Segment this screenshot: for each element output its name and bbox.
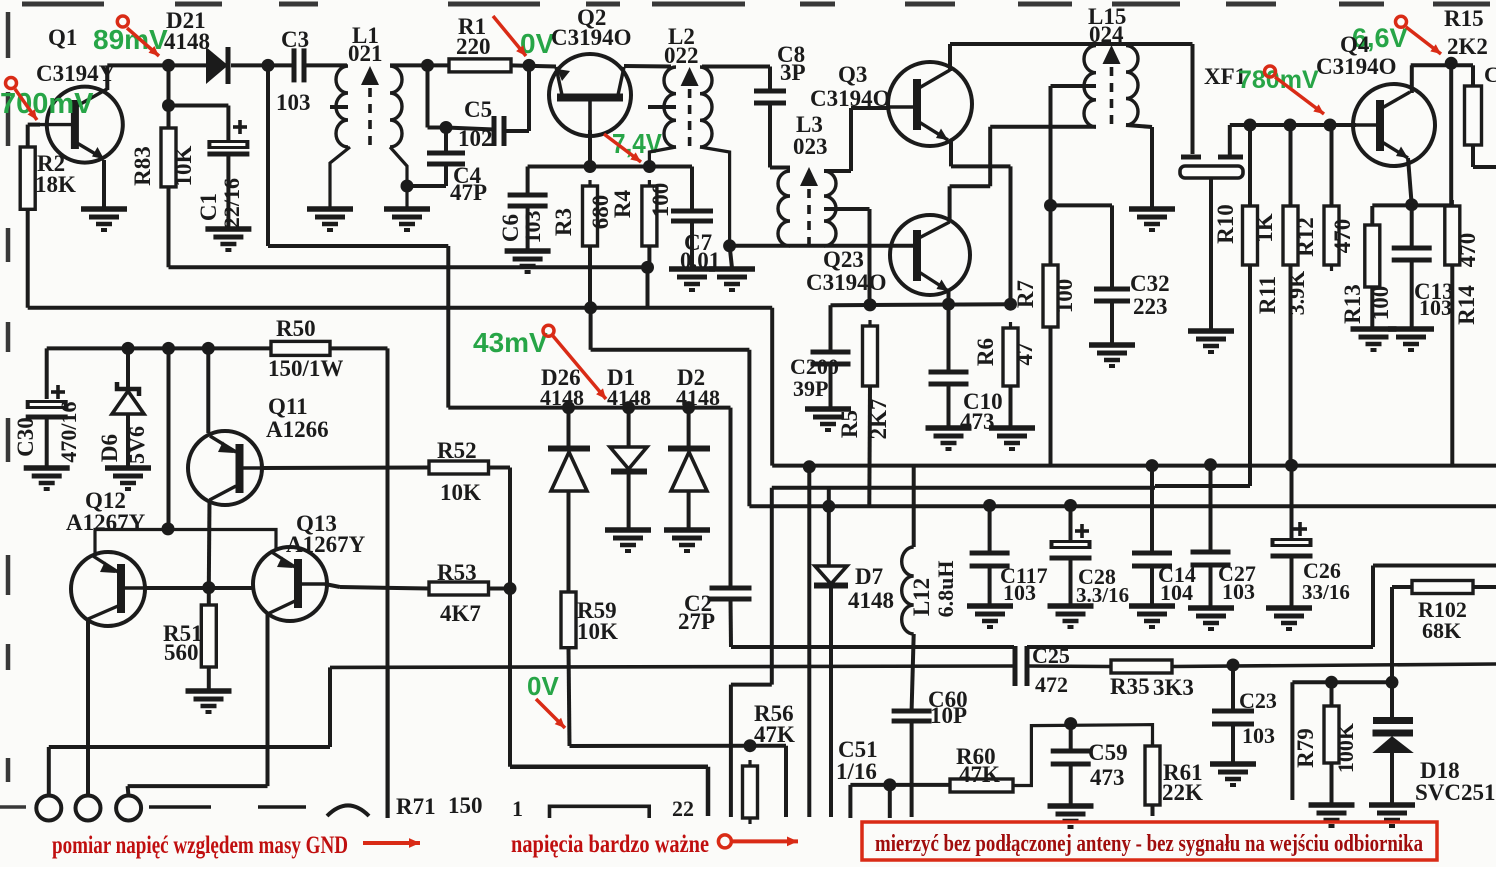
node R53 right bbox=[504, 582, 517, 595]
wire Q1 emitter down bbox=[102, 160, 106, 208]
svg-text:C25: C25 bbox=[1032, 643, 1070, 668]
svg-text:D6: D6 bbox=[97, 434, 122, 462]
wire 43mV right bbox=[268, 244, 448, 248]
wire node 0V down to C5 bbox=[527, 65, 531, 131]
svg-text:C5: C5 bbox=[464, 97, 492, 122]
wire to D26 bbox=[567, 408, 571, 448]
svg-text:A1267Y: A1267Y bbox=[286, 532, 366, 557]
wire Q11 collector down bbox=[207, 500, 212, 588]
ground L2 node bbox=[709, 269, 755, 290]
wire x510 down thick bbox=[508, 589, 512, 767]
svg-text:C3: C3 bbox=[281, 27, 309, 52]
capacitor C2 bbox=[710, 588, 752, 599]
wire line y647 right bbox=[1027, 645, 1373, 649]
svg-text:Q3: Q3 bbox=[838, 62, 867, 87]
capacitor C117 bbox=[970, 553, 1010, 566]
wire R61 bottom stub bbox=[1151, 805, 1155, 816]
svg-text:10P: 10P bbox=[930, 703, 967, 728]
wire sig down2 bbox=[747, 350, 751, 507]
svg-text:L12: L12 bbox=[909, 578, 934, 616]
wire R15 top bbox=[1471, 65, 1475, 86]
wire D7 to ic pin bbox=[829, 586, 833, 818]
wire C51 pin bbox=[848, 785, 852, 818]
wire Q4 collector up bbox=[1410, 65, 1414, 93]
resistor R53 bbox=[429, 582, 489, 595]
svg-text:47: 47 bbox=[1012, 343, 1037, 366]
svg-text:A1266: A1266 bbox=[266, 417, 329, 442]
svg-text:150/1W: 150/1W bbox=[268, 356, 343, 381]
ground C23 bbox=[1210, 764, 1256, 785]
wire main bus y667 part3 bbox=[1172, 664, 1496, 667]
wire collector rail R15 bbox=[1411, 63, 1473, 67]
wire R13 bottom bbox=[1370, 287, 1374, 328]
ground C30 bbox=[24, 468, 70, 489]
wire C32 top bbox=[1110, 205, 1114, 290]
transistor Q3 bbox=[888, 62, 972, 146]
svg-text:4148: 4148 bbox=[540, 385, 584, 410]
ground C32 bbox=[1089, 345, 1135, 366]
svg-text:C59: C59 bbox=[1088, 740, 1128, 765]
wire R102 left bbox=[1392, 585, 1412, 589]
svg-text:47K: 47K bbox=[959, 762, 1000, 787]
wire emitter line y166 bbox=[528, 165, 692, 169]
wire Q4 emitter down bbox=[1408, 158, 1412, 205]
ground C13 bbox=[1388, 329, 1434, 350]
wire R10 to bus488 bbox=[1155, 484, 1250, 488]
wire to Q3 base bbox=[851, 106, 888, 110]
wire C13 bottom bbox=[1410, 260, 1414, 328]
wire node to R51 bbox=[207, 588, 211, 605]
wire pad1 up bbox=[47, 747, 51, 796]
ground R13 bbox=[1351, 329, 1397, 350]
wire to D2 bbox=[687, 408, 691, 448]
scan border dashes left bbox=[0, 12, 26, 807]
svg-text:mierzyć bez podłączonej anteny: mierzyć bez podłączonej anteny - bez syg… bbox=[875, 831, 1423, 857]
wire C14 bottom bbox=[1150, 566, 1154, 605]
svg-text:7,4V: 7,4V bbox=[612, 128, 662, 159]
svg-text:1: 1 bbox=[512, 796, 523, 821]
dash after pads bbox=[149, 805, 211, 808]
wire R50 right bbox=[330, 346, 388, 350]
node R11 top bbox=[1284, 119, 1297, 132]
svg-text:150: 150 bbox=[448, 793, 483, 818]
wire L1 to R1 via node bbox=[390, 63, 449, 67]
wire C59 bottom bbox=[1069, 764, 1073, 805]
wire supply bus y348 bbox=[47, 346, 271, 350]
wire R3 bottom to bus bbox=[588, 246, 592, 308]
node C26 bbox=[1285, 459, 1298, 472]
wire D7 top bbox=[827, 488, 831, 507]
wire XF1 body down bbox=[1209, 178, 1213, 330]
node R7 top bbox=[1044, 199, 1057, 212]
node 7.4V bbox=[643, 160, 656, 173]
svg-text:R4: R4 bbox=[610, 189, 635, 218]
wire Q3 collector to L15 bbox=[950, 42, 1096, 46]
resistor R59 bbox=[561, 586, 576, 654]
svg-text:3.9K: 3.9K bbox=[1284, 271, 1309, 316]
node D7 bbox=[822, 500, 835, 513]
wire R71 column bbox=[386, 667, 389, 818]
svg-text:C30: C30 bbox=[13, 417, 38, 457]
L15 core dashed bbox=[1110, 67, 1114, 126]
wire C27 top bbox=[1209, 465, 1213, 553]
wire C8 bottom bbox=[768, 103, 772, 168]
resistor R79 bbox=[1324, 700, 1339, 769]
node C14 bbox=[1146, 459, 1159, 472]
wire C26 top bbox=[1290, 465, 1294, 540]
wire C30 bottom bbox=[45, 417, 49, 467]
arc component bbox=[327, 806, 369, 817]
svg-text:022: 022 bbox=[664, 43, 699, 68]
wire ic pin x809 bbox=[807, 466, 811, 817]
wire R2 bottom to bus bbox=[26, 209, 30, 307]
svg-text:R71: R71 bbox=[396, 794, 436, 819]
capacitor C8 bbox=[754, 91, 786, 103]
wire 43mV down bbox=[446, 246, 450, 408]
svg-text:R50: R50 bbox=[276, 316, 316, 341]
wire y682 bbox=[1292, 680, 1392, 684]
wire emitter node line bbox=[831, 304, 1011, 305]
wire R60 up to C59 R61 bbox=[1013, 725, 1153, 786]
ground D6 bbox=[105, 468, 151, 489]
wire L15 sec down bbox=[1150, 127, 1154, 208]
svg-text:C3194O: C3194O bbox=[551, 25, 632, 50]
wire main bus y667 part2 bbox=[1027, 664, 1111, 668]
diode D26 bbox=[548, 449, 590, 492]
wire L2 secondary btm down bbox=[700, 147, 730, 246]
wire R6 bottom bbox=[1009, 386, 1013, 427]
wire bus corner up bbox=[328, 667, 332, 747]
wire R52-R53 right bbox=[508, 468, 512, 590]
svg-text:473: 473 bbox=[1090, 765, 1125, 790]
svg-text:103: 103 bbox=[1222, 579, 1255, 604]
svg-text:C3194O: C3194O bbox=[806, 270, 887, 295]
svg-text:R52: R52 bbox=[437, 438, 477, 463]
wire C200 top bbox=[829, 305, 833, 354]
wire L1 primary to ground bbox=[330, 147, 350, 208]
wire node to C3 bbox=[268, 63, 293, 67]
node R83-C1 bbox=[162, 99, 175, 112]
wire node to C5 left bbox=[446, 128, 494, 130]
resistor R6 bbox=[1003, 322, 1018, 392]
wire D21 to node bbox=[231, 63, 268, 67]
node C59 bbox=[1064, 717, 1077, 730]
L1 tuning arrow bbox=[361, 66, 379, 85]
wire C5 right bbox=[504, 129, 529, 133]
resistor R2 bbox=[20, 141, 35, 215]
wire Q13 col left bbox=[128, 784, 268, 788]
wire y565 right bbox=[1373, 564, 1496, 568]
wire node down to R83 bbox=[167, 65, 171, 128]
svg-text:R79: R79 bbox=[1293, 728, 1318, 768]
svg-text:47K: 47K bbox=[754, 722, 795, 747]
wire R83 bottom to gnd bus bbox=[167, 187, 171, 267]
capacitor C10 bbox=[929, 372, 969, 384]
ground C27 bbox=[1188, 608, 1234, 629]
wire x388 long down bbox=[386, 348, 390, 818]
wire Q4 base line bbox=[1230, 123, 1356, 127]
node R12 top bbox=[1324, 119, 1337, 132]
resistor R35 bbox=[1111, 660, 1172, 673]
svg-text:10K: 10K bbox=[171, 145, 196, 186]
transistor Q1 bbox=[40, 87, 123, 163]
node R79 bbox=[1325, 676, 1338, 689]
svg-text:3P: 3P bbox=[780, 60, 806, 85]
svg-text:22: 22 bbox=[672, 796, 694, 821]
svg-text:C32: C32 bbox=[1130, 271, 1170, 296]
ic box outline bbox=[550, 806, 650, 818]
transformer L3 secondary coil bbox=[824, 171, 836, 246]
capacitor C14 bbox=[1132, 553, 1172, 566]
resistor R60 bbox=[950, 779, 1013, 792]
wire C3 to L1 bbox=[305, 63, 347, 67]
resistor R12 bbox=[1324, 200, 1339, 271]
wire node down to bus2 bbox=[646, 267, 650, 307]
wire C7 bottom bbox=[690, 221, 694, 268]
ground Q1 emitter bbox=[81, 209, 127, 230]
wire 43mV to D26 bbox=[448, 406, 568, 410]
wire R52 right bbox=[489, 466, 511, 470]
crystal filter XF1 bbox=[1180, 157, 1243, 178]
wire Q3 collector up bbox=[948, 44, 952, 71]
L2 tuning arrow bbox=[681, 67, 699, 86]
wire to D7 diode bbox=[827, 506, 831, 566]
svg-text:470: 470 bbox=[1455, 233, 1480, 268]
resistor R14 bbox=[1445, 200, 1460, 271]
svg-text:4148: 4148 bbox=[676, 385, 720, 410]
wire bus y465 bbox=[772, 464, 1496, 468]
wire main bus y667 bbox=[330, 666, 1014, 667]
svg-text:R53: R53 bbox=[437, 560, 477, 585]
inductor L12 bbox=[902, 547, 914, 634]
resistor R1 bbox=[449, 59, 511, 72]
varicap diode D18 bbox=[1372, 717, 1414, 753]
node D18 bbox=[1386, 676, 1399, 689]
ground L1 primary bbox=[307, 209, 353, 230]
node Q11 col R51 bbox=[202, 581, 215, 594]
wire C1 top bbox=[226, 106, 230, 142]
node Q23 emitter bbox=[942, 298, 955, 311]
node C28 bbox=[1064, 499, 1077, 512]
svg-text:22/16: 22/16 bbox=[219, 178, 244, 228]
node Q11 emitter bbox=[202, 342, 215, 355]
svg-text:47P: 47P bbox=[450, 180, 487, 205]
svg-text:1/16: 1/16 bbox=[836, 759, 877, 784]
node C27 bbox=[1204, 458, 1217, 471]
wire Q11 base to R52 bbox=[262, 466, 429, 471]
svg-text:R3: R3 bbox=[551, 208, 576, 236]
wire C32 bottom bbox=[1110, 301, 1114, 344]
wire Q11 emitter up bbox=[206, 348, 210, 433]
wire C51 to R60 bbox=[850, 783, 950, 787]
capacitor C30 bbox=[26, 400, 68, 417]
svg-text:220: 220 bbox=[456, 34, 491, 59]
svg-text:103: 103 bbox=[1419, 295, 1452, 320]
svg-text:C3194O: C3194O bbox=[1316, 54, 1397, 79]
transistor Q23 bbox=[890, 215, 970, 295]
resistor R50 bbox=[271, 341, 330, 355]
svg-text:0V: 0V bbox=[527, 671, 559, 701]
wire ic pin x731 bbox=[729, 685, 733, 817]
capacitor C28 bbox=[1050, 540, 1092, 558]
node D26 bbox=[562, 401, 575, 414]
capacitor C26 bbox=[1271, 538, 1313, 556]
wire pin x890 bbox=[888, 785, 892, 818]
wire to C4 node bbox=[428, 126, 447, 130]
pad terminal 2 bbox=[76, 796, 101, 821]
svg-text:3K3: 3K3 bbox=[1153, 675, 1194, 700]
wire Q23 emitter down bbox=[947, 291, 951, 304]
node R6 bbox=[1004, 298, 1017, 311]
diode D2 bbox=[668, 449, 710, 492]
transformer L1 secondary coil bbox=[390, 66, 402, 147]
capacitor C59 bbox=[1051, 751, 1091, 764]
wire R15 bottom bbox=[1471, 145, 1475, 167]
wire L12 top bbox=[912, 466, 916, 547]
wire bus y488 bbox=[772, 486, 1155, 490]
svg-text:2K2: 2K2 bbox=[1447, 34, 1488, 59]
wire R10 top bbox=[1248, 125, 1252, 206]
diode D1 bbox=[610, 447, 647, 472]
node 6.6V bbox=[1445, 57, 1458, 70]
L15 tuning arrow bbox=[1103, 45, 1121, 64]
wire Q1 collector up bbox=[105, 65, 109, 90]
svg-text:470: 470 bbox=[1330, 219, 1355, 254]
node C117 bbox=[983, 499, 996, 512]
wire Q23 collector bbox=[948, 186, 952, 222]
wire to pad3 bbox=[128, 786, 129, 797]
wire Q13 base right bbox=[325, 584, 340, 587]
ground XF1 bbox=[1188, 331, 1234, 352]
wire C26 bottom bbox=[1290, 556, 1294, 607]
wire sig right bbox=[591, 348, 750, 352]
wire C4 to gnd column bbox=[407, 184, 446, 188]
wire L15 to XF1 top bbox=[1096, 42, 1193, 46]
wire R102 right bbox=[1473, 585, 1496, 589]
L2 tap stub bbox=[648, 105, 676, 109]
wire emitter down to node bbox=[1009, 166, 1013, 304]
dash2 after pads bbox=[258, 805, 306, 808]
node Q4 emitter bbox=[1405, 198, 1418, 211]
wire line y647 left bbox=[731, 645, 1014, 649]
wire down bbox=[988, 127, 992, 187]
svg-text:68K: 68K bbox=[1422, 618, 1461, 643]
svg-text:R10: R10 bbox=[1213, 204, 1238, 244]
wire Q4 emitter node line R13 to R14 bbox=[1372, 203, 1451, 207]
wire R2 top bbox=[26, 125, 30, 147]
svg-text:R83: R83 bbox=[130, 146, 155, 186]
wire ground bus y267 bbox=[169, 265, 648, 269]
wire L2 to C8 top bbox=[702, 65, 770, 69]
node x168 bbox=[162, 342, 175, 355]
svg-text:1K: 1K bbox=[1252, 213, 1277, 243]
wire L1 secondary to ground bbox=[390, 147, 407, 208]
transformer L2 secondary coil bbox=[700, 67, 712, 147]
wire R14 bottom to bus bbox=[1450, 265, 1454, 466]
zener diode D6 bbox=[112, 382, 144, 414]
svg-text:33/16: 33/16 bbox=[1302, 580, 1350, 604]
wire y746 bbox=[570, 744, 787, 748]
wire node L1R1 down bbox=[426, 65, 430, 127]
wire R59 bottom down bbox=[569, 648, 570, 746]
wire ic pin x786 bbox=[784, 746, 788, 817]
resistor R11 bbox=[1283, 200, 1298, 271]
wire left to Q23 collector bbox=[950, 184, 991, 188]
node 0V bbox=[523, 59, 536, 72]
wire x168 down to emitters bbox=[167, 348, 171, 529]
svg-text:5V6: 5V6 bbox=[124, 426, 149, 464]
wire node to C1 bbox=[169, 104, 229, 108]
svg-text:SVC251: SVC251 bbox=[1415, 780, 1496, 805]
wire C117 bottom bbox=[988, 566, 992, 605]
resistor R56 bbox=[743, 760, 758, 824]
wire D1 to ground bbox=[627, 472, 631, 530]
ground C6 bbox=[505, 251, 551, 272]
diode D21 bbox=[206, 47, 228, 84]
wire XF1 left down bbox=[1191, 44, 1195, 154]
diode D7 bbox=[814, 566, 848, 586]
svg-text:6.8uH: 6.8uH bbox=[933, 561, 958, 618]
svg-text:4148: 4148 bbox=[607, 385, 651, 410]
L3 tuning arrow bbox=[800, 167, 818, 186]
transformer L15 primary coil bbox=[1084, 46, 1096, 128]
wire R4 bottom bbox=[647, 246, 651, 267]
node R10 top bbox=[1244, 119, 1257, 132]
ground D18 bbox=[1369, 805, 1415, 826]
svg-text:C: C bbox=[1484, 62, 1496, 87]
svg-text:560: 560 bbox=[164, 640, 199, 665]
svg-text:18K: 18K bbox=[35, 172, 76, 197]
wire Q12 Q13 emitters bbox=[95, 530, 276, 557]
svg-text:104: 104 bbox=[1160, 580, 1193, 605]
wire to L3 bbox=[770, 166, 790, 170]
node L2 sec gnd bbox=[723, 239, 736, 252]
wire C6 bottom bbox=[526, 206, 530, 250]
wire R79 top bbox=[1330, 682, 1334, 706]
L3 core dashed bbox=[807, 189, 811, 248]
svg-text:A1267Y: A1267Y bbox=[66, 510, 146, 535]
capacitor C3 bbox=[294, 48, 304, 82]
ground R51 bbox=[186, 691, 232, 712]
svg-text:470/16: 470/16 bbox=[56, 401, 81, 462]
wire D6 bottom bbox=[126, 414, 130, 467]
wire bus y506 bbox=[749, 504, 1496, 508]
resistor R5 bbox=[863, 320, 878, 392]
wire Q2 collector to L2 bbox=[624, 64, 671, 69]
capacitor C6 bbox=[508, 195, 548, 206]
wire R102 down bbox=[1390, 587, 1394, 682]
wire C10 top bbox=[947, 304, 951, 374]
svg-text:R5: R5 bbox=[837, 410, 862, 438]
svg-text:102: 102 bbox=[458, 126, 493, 151]
svg-text:R13: R13 bbox=[1340, 284, 1365, 324]
transistor Q13 pnp bbox=[253, 547, 327, 621]
node L1-R1 bbox=[421, 59, 434, 72]
node D1 bbox=[622, 401, 635, 414]
capacitor C200 bbox=[811, 352, 851, 364]
node R5 bbox=[864, 298, 877, 311]
transformer L15 secondary coil bbox=[1126, 46, 1138, 126]
svg-text:43mV: 43mV bbox=[473, 327, 548, 358]
svg-text:R6: R6 bbox=[973, 338, 998, 366]
wire C30 top bbox=[45, 348, 49, 399]
svg-text:27P: 27P bbox=[678, 609, 715, 634]
ground C59 bbox=[1048, 806, 1094, 827]
wire Q3 emitter down bbox=[949, 141, 953, 166]
wire R11 bottom to bus bbox=[1289, 265, 1293, 465]
transformer L2 primary coil bbox=[664, 67, 676, 147]
wire top rail Q1 collector to node bbox=[107, 63, 168, 67]
